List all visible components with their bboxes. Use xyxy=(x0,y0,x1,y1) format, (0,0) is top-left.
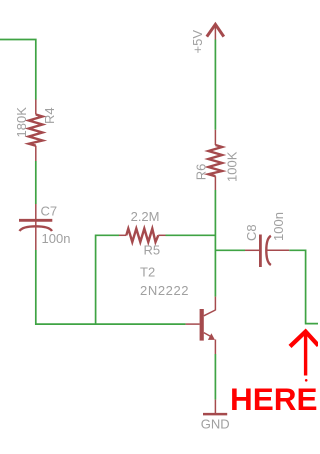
svg-text:180K: 180K xyxy=(14,107,29,138)
capacitor C8 xyxy=(245,235,289,268)
resistor R6 xyxy=(208,130,222,190)
annotation arrow xyxy=(290,332,318,376)
svg-text:T2: T2 xyxy=(140,265,155,280)
svg-text:GND: GND xyxy=(201,417,230,432)
svg-text:2N2222: 2N2222 xyxy=(140,283,189,298)
wire xyxy=(36,250,186,324)
transistor T2 xyxy=(186,297,216,354)
wire xyxy=(215,249,245,251)
resistor R4 xyxy=(29,100,43,162)
wire xyxy=(289,250,318,323)
svg-text:100K: 100K xyxy=(225,151,240,182)
svg-text:HERE: HERE xyxy=(230,381,318,417)
wire xyxy=(35,161,37,204)
svg-text:R5: R5 xyxy=(144,243,161,258)
power +5V xyxy=(207,24,224,39)
wire xyxy=(214,40,216,130)
svg-text:100n: 100n xyxy=(271,212,286,241)
svg-text:C7: C7 xyxy=(41,204,58,219)
svg-text:R4: R4 xyxy=(42,107,57,124)
svg-text:R6: R6 xyxy=(194,164,209,181)
wire xyxy=(166,234,216,236)
wire xyxy=(0,40,36,100)
svg-text:C8: C8 xyxy=(244,224,259,241)
wire xyxy=(96,235,119,324)
ground xyxy=(203,400,227,415)
svg-text:100n: 100n xyxy=(42,231,71,246)
resistor R5 xyxy=(119,229,166,242)
svg-text:+5V: +5V xyxy=(190,30,205,54)
capacitor C7 xyxy=(19,204,52,250)
wire xyxy=(214,190,216,297)
svg-text:2.2M: 2.2M xyxy=(131,209,160,224)
wire xyxy=(214,354,216,400)
